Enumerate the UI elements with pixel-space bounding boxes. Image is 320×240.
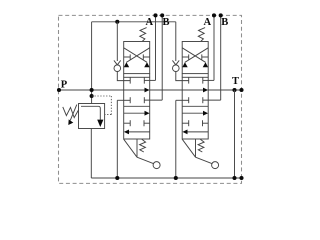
neutral box top-right blocked port seat 1 (143, 77, 145, 83)
node: relief drain joins tank gallery (115, 176, 119, 180)
pilot / load-sense gallery line (92, 21, 176, 23)
neutral box bottom-left blocked port seat 1 (129, 97, 131, 103)
relief pilot line (dotted) (92, 95, 112, 97)
enclosure dashed boundary of valve assembly (59, 15, 242, 183)
shock valve seat right 2 (202, 56, 208, 58)
tank drain line of section 2 (175, 100, 177, 178)
neutral box top-left blocked port seat 1 (129, 77, 131, 83)
relief spring on shock valve block 2 (198, 28, 205, 42)
relief valve internal flow arrow (81, 106, 100, 120)
return spring of spool 2 (198, 139, 204, 152)
port A2 junction dot on enclosure (212, 13, 216, 17)
relief adjustment arrow (70, 105, 77, 121)
spool valve body section 2 (181, 74, 183, 78)
shock valve crossed arrow 1 (section 2) (182, 48, 205, 63)
neutral box bottom-left blocked port seat 2 (188, 97, 190, 103)
neutral box top-left blocked port seat 2 (188, 77, 190, 83)
port A1 junction dot on enclosure (153, 13, 157, 17)
shifted box flow arrow right 1 (124, 112, 145, 114)
shock valve crossed arrow 2 (section 1) (126, 48, 149, 63)
shock valve seat right 1 (143, 56, 149, 58)
wire: check valve 2 to spool port (176, 72, 189, 81)
open-center carryover arrow (P through) 2 (182, 89, 203, 91)
node: riser pilot tap junction (90, 94, 94, 98)
P carryover line section2 to T port (208, 89, 241, 91)
shock valve crossed arrow 1 (section 1) (124, 48, 147, 63)
shifted box flow arrow left 1 (128, 131, 149, 133)
return spring of spool 1 (140, 139, 146, 152)
wire: check valve 1 to spool port (117, 72, 130, 81)
port B1 junction dot on enclosure (160, 13, 164, 17)
neutral box top-right blocked port seat 2 (202, 77, 204, 83)
svg-text:T: T (232, 76, 239, 87)
node T (port dot on enclosure) (239, 88, 243, 92)
shock valve seat left 1 (124, 56, 131, 58)
shifted box flow arrow right 2 (182, 112, 203, 114)
anti-cavitation check valve 1 (seat + ball) (116, 22, 118, 61)
shock valve seat left 2 (182, 56, 189, 58)
node: riser to P line junction (90, 88, 94, 92)
svg-text:A: A (146, 17, 154, 28)
relief spring on shock valve block 1 (140, 28, 147, 42)
svg-text:A: A (204, 17, 212, 28)
node: check valve 1 tap (115, 20, 119, 24)
port B2 junction dot on enclosure (219, 13, 223, 17)
svg-text:P: P (61, 79, 68, 90)
node: section2 drain joins tank gallery (174, 176, 178, 180)
relief valve adjustable spring (63, 107, 79, 118)
spool neutral box divider 2 (182, 105, 208, 107)
work port B2 line (220, 15, 222, 100)
open-center carryover arrow (P through) 1 (124, 89, 145, 91)
manual lever actuator 2 (195, 139, 197, 157)
tank return gallery line (91, 177, 241, 179)
node: tank riser joins gallery (232, 176, 236, 180)
work port A1 line (155, 15, 157, 80)
svg-text:B: B (162, 17, 169, 28)
shifted box flow arrow left 2 (187, 131, 208, 133)
work port A2 line (213, 15, 215, 80)
node: tank gallery at enclosure (239, 176, 243, 180)
node: tank riser junction on T line (232, 88, 236, 92)
manual lever actuator 1 (136, 139, 138, 157)
shifted box blocked seat left 2 (182, 122, 189, 124)
neutral box bottom-right blocked port seat 1 (143, 97, 145, 103)
spool valve body section 1 (123, 74, 125, 78)
P carryover line section1 to section2 (150, 89, 183, 91)
main relief valve body U1 (79, 104, 105, 129)
shifted box blocked seat right 2 (203, 122, 209, 124)
shock valve crossed arrow 2 (section 2) (185, 48, 208, 63)
P inlet line (59, 89, 124, 91)
crossover shock valve block (X box) section 1 (124, 42, 150, 74)
spool neutral box divider 1 (124, 105, 150, 107)
svg-text:B: B (221, 17, 228, 28)
work port B1 line (161, 15, 163, 100)
crossover shock valve block (X box) section 2 (182, 42, 208, 74)
relief valve drain to tank (90, 129, 92, 179)
shifted box blocked seat right 1 (144, 122, 150, 124)
node P (port dot) (57, 88, 61, 92)
anti-cavitation check valve 2 (seat + ball) (175, 22, 177, 61)
neutral box bottom-right blocked port seat 2 (202, 97, 204, 103)
tank drain line of section 1 (116, 100, 118, 178)
tank riser (234, 90, 236, 178)
relief valve riser (91, 22, 93, 104)
shifted box blocked seat left 1 (124, 122, 131, 124)
